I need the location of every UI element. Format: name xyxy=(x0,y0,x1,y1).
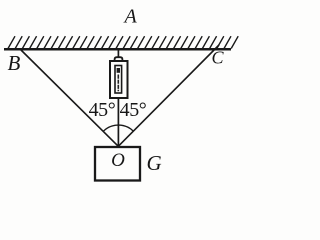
svg-text:C: C xyxy=(212,48,225,68)
spring scale pointer xyxy=(117,68,120,73)
string B to junction xyxy=(21,50,118,146)
vertical string ceiling to spring scale xyxy=(117,50,119,59)
svg-text:45°: 45° xyxy=(89,99,116,121)
ceiling line xyxy=(4,48,231,51)
spring scale U1 xyxy=(110,57,128,98)
svg-text:O: O xyxy=(111,150,125,171)
svg-text:G: G xyxy=(147,151,162,175)
spring scale slot xyxy=(115,66,122,94)
angle arc xyxy=(103,125,133,131)
ceiling hatching xyxy=(8,36,238,48)
svg-text:45°: 45° xyxy=(120,99,147,121)
vertical string spring scale to junction xyxy=(117,96,119,148)
spring scale body xyxy=(110,61,128,98)
svg-text:B: B xyxy=(8,51,21,75)
string C to junction xyxy=(118,45,219,146)
svg-text:A: A xyxy=(123,6,138,28)
weight box O xyxy=(95,147,140,181)
spring scale spring xyxy=(117,75,119,92)
spring scale top hook bump xyxy=(115,57,123,61)
